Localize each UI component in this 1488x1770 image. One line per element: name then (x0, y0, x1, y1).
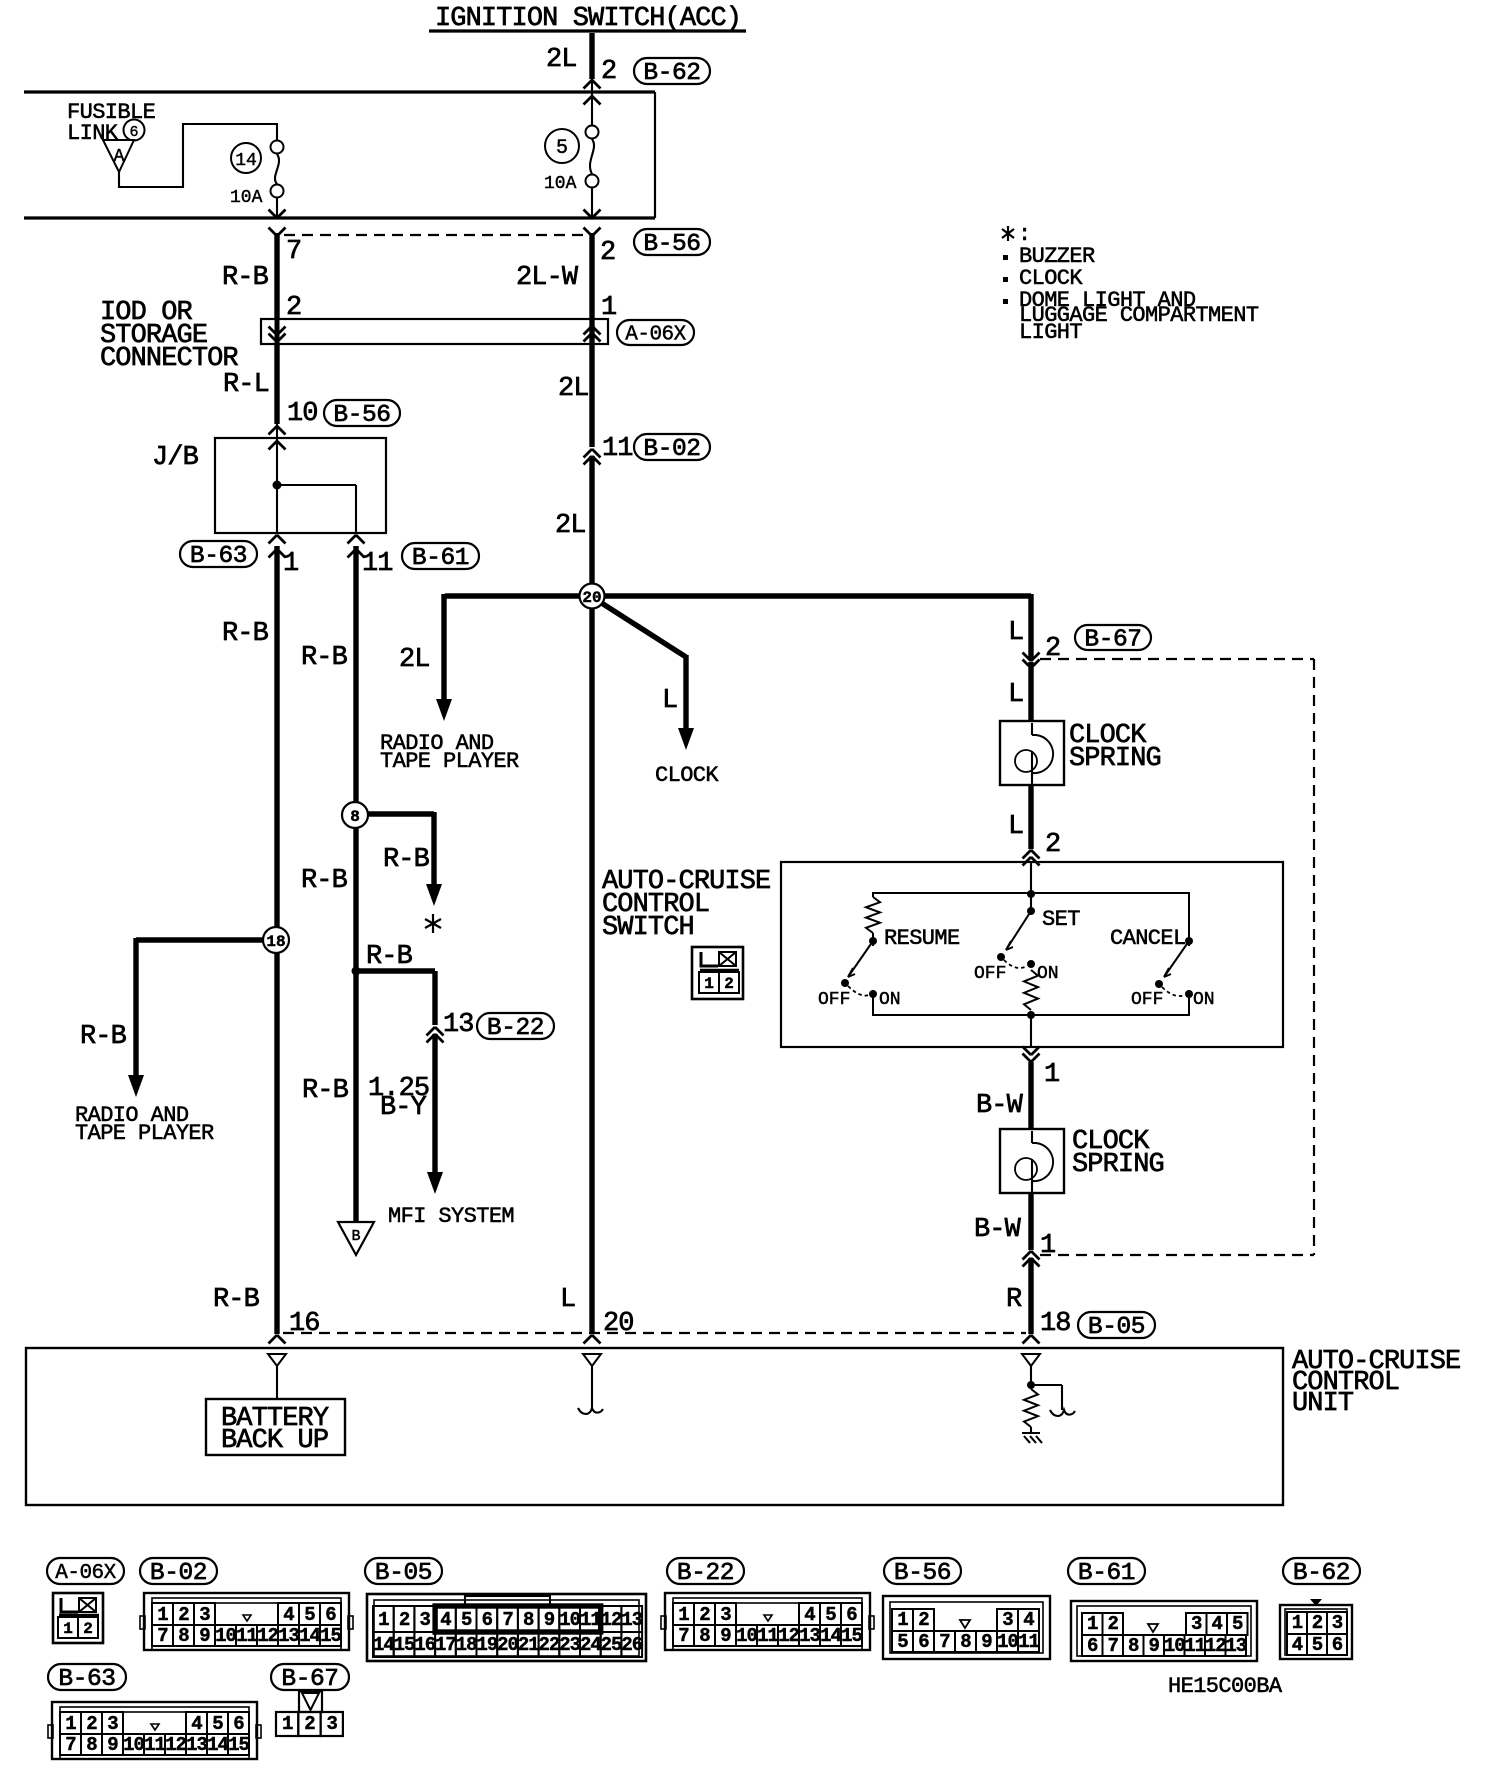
svg-text:SWITCH: SWITCH (602, 913, 694, 943)
svg-text:TAPE PLAYER: TAPE PLAYER (380, 749, 519, 774)
svg-text:13: 13 (443, 1010, 474, 1040)
svg-text:12: 12 (257, 1625, 278, 1647)
svg-text:SET: SET (1042, 907, 1080, 932)
svg-text:4: 4 (283, 1604, 294, 1626)
svg-text:23: 23 (559, 1634, 580, 1656)
svg-text:12: 12 (1205, 1635, 1226, 1657)
svg-text:3: 3 (720, 1604, 731, 1626)
svg-text:3: 3 (1332, 1612, 1343, 1634)
svg-text:R-B: R-B (302, 1076, 349, 1106)
svg-text:5: 5 (1312, 1634, 1323, 1656)
svg-text:7: 7 (678, 1625, 689, 1647)
svg-text:A: A (114, 147, 125, 167)
svg-text:7: 7 (286, 237, 301, 267)
svg-text:2: 2 (724, 975, 734, 993)
svg-text:11: 11 (362, 549, 393, 579)
svg-text:L: L (662, 686, 677, 716)
svg-text:1: 1 (63, 1620, 73, 1638)
svg-text:B-62: B-62 (643, 60, 700, 87)
svg-text:B-67: B-67 (1084, 627, 1141, 654)
svg-text:OFF: OFF (974, 964, 1006, 984)
svg-text:5: 5 (304, 1604, 315, 1626)
svg-text:RESUME: RESUME (884, 926, 960, 951)
svg-text:16: 16 (289, 1309, 320, 1339)
svg-text:10: 10 (123, 1734, 144, 1756)
svg-text:12: 12 (165, 1734, 186, 1756)
svg-text:B-02: B-02 (150, 1560, 207, 1587)
svg-text:4: 4 (804, 1604, 815, 1626)
svg-text:R-B: R-B (383, 845, 430, 875)
svg-text:5: 5 (461, 1609, 472, 1631)
svg-text:11: 11 (1018, 1631, 1039, 1653)
svg-text:OFF: OFF (818, 990, 850, 1010)
svg-text:15: 15 (394, 1634, 415, 1656)
svg-text:10: 10 (736, 1625, 757, 1647)
svg-text:5: 5 (556, 137, 568, 160)
svg-text:10: 10 (559, 1609, 580, 1631)
svg-text:7: 7 (157, 1625, 168, 1647)
svg-text:SPRING: SPRING (1072, 1150, 1164, 1180)
svg-text:7: 7 (1108, 1635, 1119, 1657)
svg-text:5: 5 (1232, 1613, 1243, 1635)
svg-text:15: 15 (841, 1625, 862, 1647)
svg-text:B-62: B-62 (1293, 1560, 1350, 1587)
svg-text:11: 11 (757, 1625, 778, 1647)
svg-text:CANCEL: CANCEL (1110, 926, 1186, 951)
svg-text:9: 9 (107, 1734, 118, 1756)
svg-text:B-Y: B-Y (380, 1093, 427, 1123)
svg-text:9: 9 (720, 1625, 731, 1647)
svg-text:CONNECTOR: CONNECTOR (100, 344, 238, 374)
svg-text:2: 2 (1045, 830, 1060, 860)
svg-text:14: 14 (820, 1625, 841, 1647)
svg-text:7: 7 (65, 1734, 76, 1756)
svg-text:18: 18 (266, 933, 285, 951)
svg-text:R-B: R-B (80, 1022, 127, 1052)
svg-text:L: L (560, 1285, 575, 1315)
svg-text:J/B: J/B (152, 443, 199, 473)
svg-text:2: 2 (86, 1713, 97, 1735)
svg-text:ON: ON (879, 990, 901, 1010)
svg-text:1: 1 (283, 549, 298, 579)
svg-text:R: R (1006, 1285, 1022, 1315)
svg-text:3: 3 (327, 1713, 338, 1735)
svg-text:OFF: OFF (1131, 990, 1163, 1010)
svg-text:3: 3 (1002, 1609, 1013, 1631)
svg-text:5: 5 (897, 1631, 908, 1653)
svg-text:18: 18 (456, 1634, 477, 1656)
svg-text:R-L: R-L (223, 370, 269, 400)
svg-text:SPRING: SPRING (1069, 744, 1161, 774)
svg-text:10: 10 (287, 399, 318, 429)
svg-text:13: 13 (799, 1625, 820, 1647)
svg-text:14: 14 (299, 1625, 320, 1647)
svg-text:11: 11 (144, 1734, 165, 1756)
svg-text:14: 14 (235, 151, 257, 171)
svg-text:14: 14 (207, 1734, 228, 1756)
svg-text:B-61: B-61 (1078, 1560, 1135, 1587)
svg-text:7: 7 (939, 1631, 950, 1653)
svg-text:2: 2 (178, 1604, 189, 1626)
svg-text:B-02: B-02 (643, 436, 700, 463)
svg-text:TAPE PLAYER: TAPE PLAYER (75, 1121, 214, 1146)
svg-text:2: 2 (1108, 1613, 1119, 1635)
svg-text:9: 9 (199, 1625, 210, 1647)
svg-text:12: 12 (601, 1609, 622, 1631)
svg-text:5: 5 (825, 1604, 836, 1626)
svg-text:17: 17 (435, 1634, 456, 1656)
svg-text:1: 1 (157, 1604, 168, 1626)
svg-text:6: 6 (918, 1631, 929, 1653)
svg-text:6: 6 (846, 1604, 857, 1626)
svg-text:5: 5 (212, 1713, 223, 1735)
svg-text:1: 1 (282, 1713, 293, 1735)
svg-text:BACK UP: BACK UP (221, 1426, 328, 1456)
svg-text:A-06X: A-06X (55, 1562, 116, 1585)
svg-text:B-61: B-61 (412, 545, 469, 572)
svg-text:CLOCK: CLOCK (655, 763, 719, 788)
svg-text:1: 1 (65, 1713, 76, 1735)
svg-text:8: 8 (350, 808, 360, 826)
svg-text:B-63: B-63 (58, 1666, 115, 1693)
svg-text:22: 22 (539, 1634, 560, 1656)
svg-text:B-22: B-22 (487, 1015, 544, 1042)
svg-text:R-B: R-B (222, 263, 269, 293)
svg-text:18: 18 (1040, 1309, 1071, 1339)
svg-text:R-B: R-B (301, 643, 348, 673)
svg-text:B-W: B-W (974, 1215, 1022, 1245)
svg-text:13: 13 (186, 1734, 207, 1756)
svg-text:3: 3 (420, 1609, 431, 1631)
svg-text:B-W: B-W (976, 1091, 1024, 1121)
svg-text:8: 8 (1128, 1635, 1139, 1657)
svg-text:L: L (1008, 812, 1023, 842)
svg-text:2L: 2L (546, 45, 577, 75)
svg-text:10A: 10A (544, 174, 577, 194)
svg-text:24: 24 (580, 1634, 601, 1656)
svg-text:2: 2 (83, 1620, 93, 1638)
svg-text:13: 13 (278, 1625, 299, 1647)
svg-text:8: 8 (699, 1625, 710, 1647)
svg-text:3: 3 (1191, 1613, 1202, 1635)
svg-text:20: 20 (497, 1634, 518, 1656)
svg-text:2: 2 (304, 1713, 315, 1735)
svg-text:B-67: B-67 (281, 1666, 338, 1693)
svg-text:R-B: R-B (301, 866, 348, 896)
svg-text:6: 6 (325, 1604, 336, 1626)
svg-text:25: 25 (601, 1634, 622, 1656)
svg-text:21: 21 (518, 1634, 539, 1656)
svg-text:8: 8 (960, 1631, 971, 1653)
svg-text:9: 9 (544, 1609, 555, 1631)
svg-text:1: 1 (1087, 1613, 1098, 1635)
svg-text:1: 1 (1292, 1612, 1303, 1634)
svg-text:6: 6 (482, 1609, 493, 1631)
svg-text:15: 15 (320, 1625, 341, 1647)
svg-text:9: 9 (1149, 1635, 1160, 1657)
svg-text:LIGHT: LIGHT (1019, 320, 1082, 345)
svg-text:19: 19 (476, 1634, 497, 1656)
svg-text:2: 2 (1312, 1612, 1323, 1634)
svg-text:L: L (1008, 680, 1023, 710)
svg-text:26: 26 (621, 1634, 642, 1656)
svg-text:20: 20 (582, 589, 601, 607)
svg-text:15: 15 (228, 1734, 249, 1756)
svg-text:L: L (1008, 618, 1023, 648)
svg-text:ON: ON (1037, 964, 1059, 984)
svg-text:4: 4 (1212, 1613, 1223, 1635)
svg-text:8: 8 (178, 1625, 189, 1647)
svg-text:HE15C00BA: HE15C00BA (1168, 1674, 1283, 1699)
svg-text:B: B (351, 1228, 360, 1245)
svg-text:A-06X: A-06X (625, 324, 686, 347)
svg-text:2L-W: 2L-W (516, 263, 579, 293)
svg-text:2: 2 (601, 57, 616, 87)
svg-text:B-63: B-63 (190, 543, 247, 570)
svg-text:B-05: B-05 (1088, 1314, 1145, 1341)
svg-text:10A: 10A (230, 188, 263, 208)
svg-text:8: 8 (523, 1609, 534, 1631)
svg-text:2: 2 (399, 1609, 410, 1631)
svg-text:12: 12 (778, 1625, 799, 1647)
svg-text:2: 2 (918, 1609, 929, 1631)
svg-text:1: 1 (1044, 1060, 1059, 1090)
svg-text:6: 6 (233, 1713, 244, 1735)
svg-text:1: 1 (378, 1609, 389, 1631)
svg-text:2L: 2L (558, 374, 589, 404)
svg-text:4: 4 (440, 1609, 451, 1631)
svg-text:4: 4 (1023, 1609, 1034, 1631)
svg-text:11: 11 (602, 434, 633, 464)
svg-text:14: 14 (373, 1634, 394, 1656)
svg-text:B-56: B-56 (333, 402, 390, 429)
svg-text:6: 6 (1087, 1635, 1098, 1657)
svg-text:11: 11 (236, 1625, 257, 1647)
svg-text:ON: ON (1193, 990, 1215, 1010)
svg-text:13: 13 (1225, 1635, 1246, 1657)
svg-text:B-05: B-05 (375, 1560, 432, 1587)
svg-text:1: 1 (897, 1609, 908, 1631)
svg-text:20: 20 (603, 1309, 634, 1339)
svg-text:3: 3 (107, 1713, 118, 1735)
svg-text:R-B: R-B (366, 942, 413, 972)
svg-text:10: 10 (1164, 1635, 1185, 1657)
svg-text:B-56: B-56 (643, 231, 700, 258)
svg-text:2L: 2L (555, 511, 586, 541)
svg-text:1: 1 (704, 975, 714, 993)
svg-text:9: 9 (981, 1631, 992, 1653)
svg-text:8: 8 (86, 1734, 97, 1756)
svg-text:13: 13 (621, 1609, 642, 1631)
svg-text:10: 10 (215, 1625, 236, 1647)
svg-text:16: 16 (414, 1634, 435, 1656)
svg-text:R-B: R-B (222, 619, 269, 649)
svg-text:11: 11 (1184, 1635, 1205, 1657)
svg-text:R-B: R-B (213, 1285, 260, 1315)
svg-text:2: 2 (699, 1604, 710, 1626)
svg-text:4: 4 (1292, 1634, 1303, 1656)
svg-text:4: 4 (191, 1713, 202, 1735)
svg-text:B-22: B-22 (677, 1560, 734, 1587)
svg-text:6: 6 (129, 124, 138, 141)
svg-text:1: 1 (678, 1604, 689, 1626)
svg-text:MFI SYSTEM: MFI SYSTEM (388, 1204, 514, 1229)
svg-text:2: 2 (600, 238, 615, 268)
svg-text:6: 6 (1332, 1634, 1343, 1656)
svg-text:UNIT: UNIT (1292, 1389, 1354, 1419)
svg-text:3: 3 (199, 1604, 210, 1626)
svg-text:B-56: B-56 (894, 1560, 951, 1587)
svg-text:10: 10 (997, 1631, 1018, 1653)
svg-text:2L: 2L (399, 645, 430, 675)
svg-text:7: 7 (502, 1609, 513, 1631)
svg-text:1: 1 (1040, 1231, 1055, 1261)
